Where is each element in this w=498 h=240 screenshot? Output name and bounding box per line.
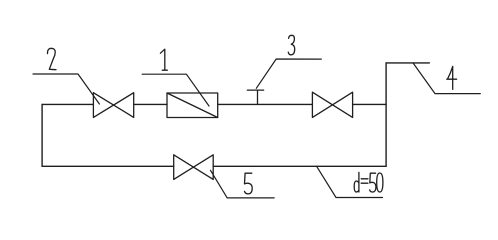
wire: left riser (vertical pipe) xyxy=(41,104,43,166)
wire: main pipe segment from left riser to valve 2 xyxy=(42,103,93,105)
filter 1 (rectangle with diagonal) xyxy=(167,93,218,118)
leader label 2 (underline + slant to valve 2) xyxy=(33,74,99,104)
leader label 1 (underline + slant to filter) xyxy=(142,74,209,106)
wire: top outlet pipe (node 4) xyxy=(386,62,429,64)
leader label 4 (slant from outlet pipe + underline) xyxy=(413,63,480,94)
text digit 1 xyxy=(160,49,167,70)
wire: bottom bypass pipe right of valve 5 xyxy=(213,165,386,167)
text digit 3 xyxy=(288,35,294,55)
text digit 4 xyxy=(447,66,457,89)
text label d=50 : equals sign xyxy=(361,179,368,183)
wire: bottom bypass pipe left of valve 5 xyxy=(42,165,174,167)
wire: main pipe segment gate valve to right riser xyxy=(353,103,387,105)
valve 5 (gate valve on bypass) xyxy=(174,155,214,180)
node 3: test/vent point tick on main pipe xyxy=(247,90,263,104)
text label d=50 : digit 5 xyxy=(370,173,376,192)
gate valve (unnumbered, on main line) xyxy=(312,92,352,117)
wire: main pipe segment valve 2 to filter 1 xyxy=(134,103,167,105)
wire: main pipe segment filter 1 to gate valve xyxy=(218,103,313,105)
text digit 2 xyxy=(47,48,56,69)
text digit 5 xyxy=(245,173,253,194)
valve 2 (gate valve, bowtie) xyxy=(93,93,133,118)
leader label d=50 (slant from bypass pipe + underline) xyxy=(317,166,383,197)
leader label 3 (underline + slant to tick) xyxy=(256,59,321,88)
wire: right riser (vertical pipe) xyxy=(385,63,387,166)
text label d=50 : digit 0 xyxy=(377,173,383,192)
text label d=50 : letter d xyxy=(354,172,359,192)
leader label 5 (slant from valve 5 + underline) xyxy=(211,170,275,198)
